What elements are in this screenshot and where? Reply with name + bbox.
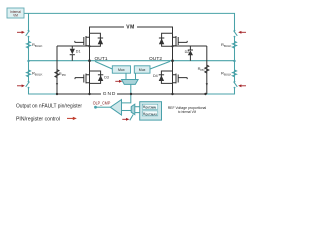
svg-text:Mux: Mux bbox=[139, 68, 146, 72]
svg-text:RBULK: RBULK bbox=[32, 42, 43, 48]
svg-text:OUT1: OUT1 bbox=[95, 56, 108, 62]
svg-text:VOUT,MIN: VOUT,MIN bbox=[143, 105, 156, 110]
svg-text:D4: D4 bbox=[153, 74, 158, 78]
svg-text:D3: D3 bbox=[104, 76, 109, 80]
svg-text:VM: VM bbox=[126, 25, 134, 31]
svg-text:RBULK: RBULK bbox=[221, 42, 232, 48]
svg-text:D2: D2 bbox=[185, 50, 190, 54]
svg-text:RBULK: RBULK bbox=[221, 71, 232, 77]
svg-text:D1: D1 bbox=[76, 50, 81, 54]
svg-text:OLP_CMP: OLP_CMP bbox=[93, 101, 111, 106]
svg-text:RPD: RPD bbox=[198, 66, 205, 72]
svg-text:VM: VM bbox=[13, 14, 18, 18]
svg-text:GND: GND bbox=[103, 91, 116, 97]
svg-text:Mux: Mux bbox=[118, 68, 125, 72]
svg-text:OUT2: OUT2 bbox=[149, 56, 162, 62]
svg-text:Output on nFAULT pin/register: Output on nFAULT pin/register bbox=[16, 104, 82, 110]
svg-text:VOUT,MAX: VOUT,MAX bbox=[143, 112, 157, 117]
svg-text:RBULK: RBULK bbox=[32, 71, 43, 77]
svg-text:to internal VM: to internal VM bbox=[178, 110, 196, 114]
svg-text:RPD: RPD bbox=[59, 71, 66, 77]
svg-text:PIN/register control: PIN/register control bbox=[16, 116, 60, 122]
